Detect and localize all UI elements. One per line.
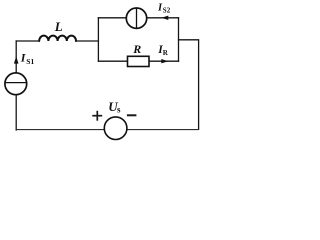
- svg-text:R: R: [132, 42, 141, 56]
- svg-text:s: s: [117, 105, 121, 115]
- svg-text:L: L: [54, 19, 63, 34]
- svg-text:S1: S1: [26, 57, 34, 66]
- svg-text:S2: S2: [163, 7, 171, 15]
